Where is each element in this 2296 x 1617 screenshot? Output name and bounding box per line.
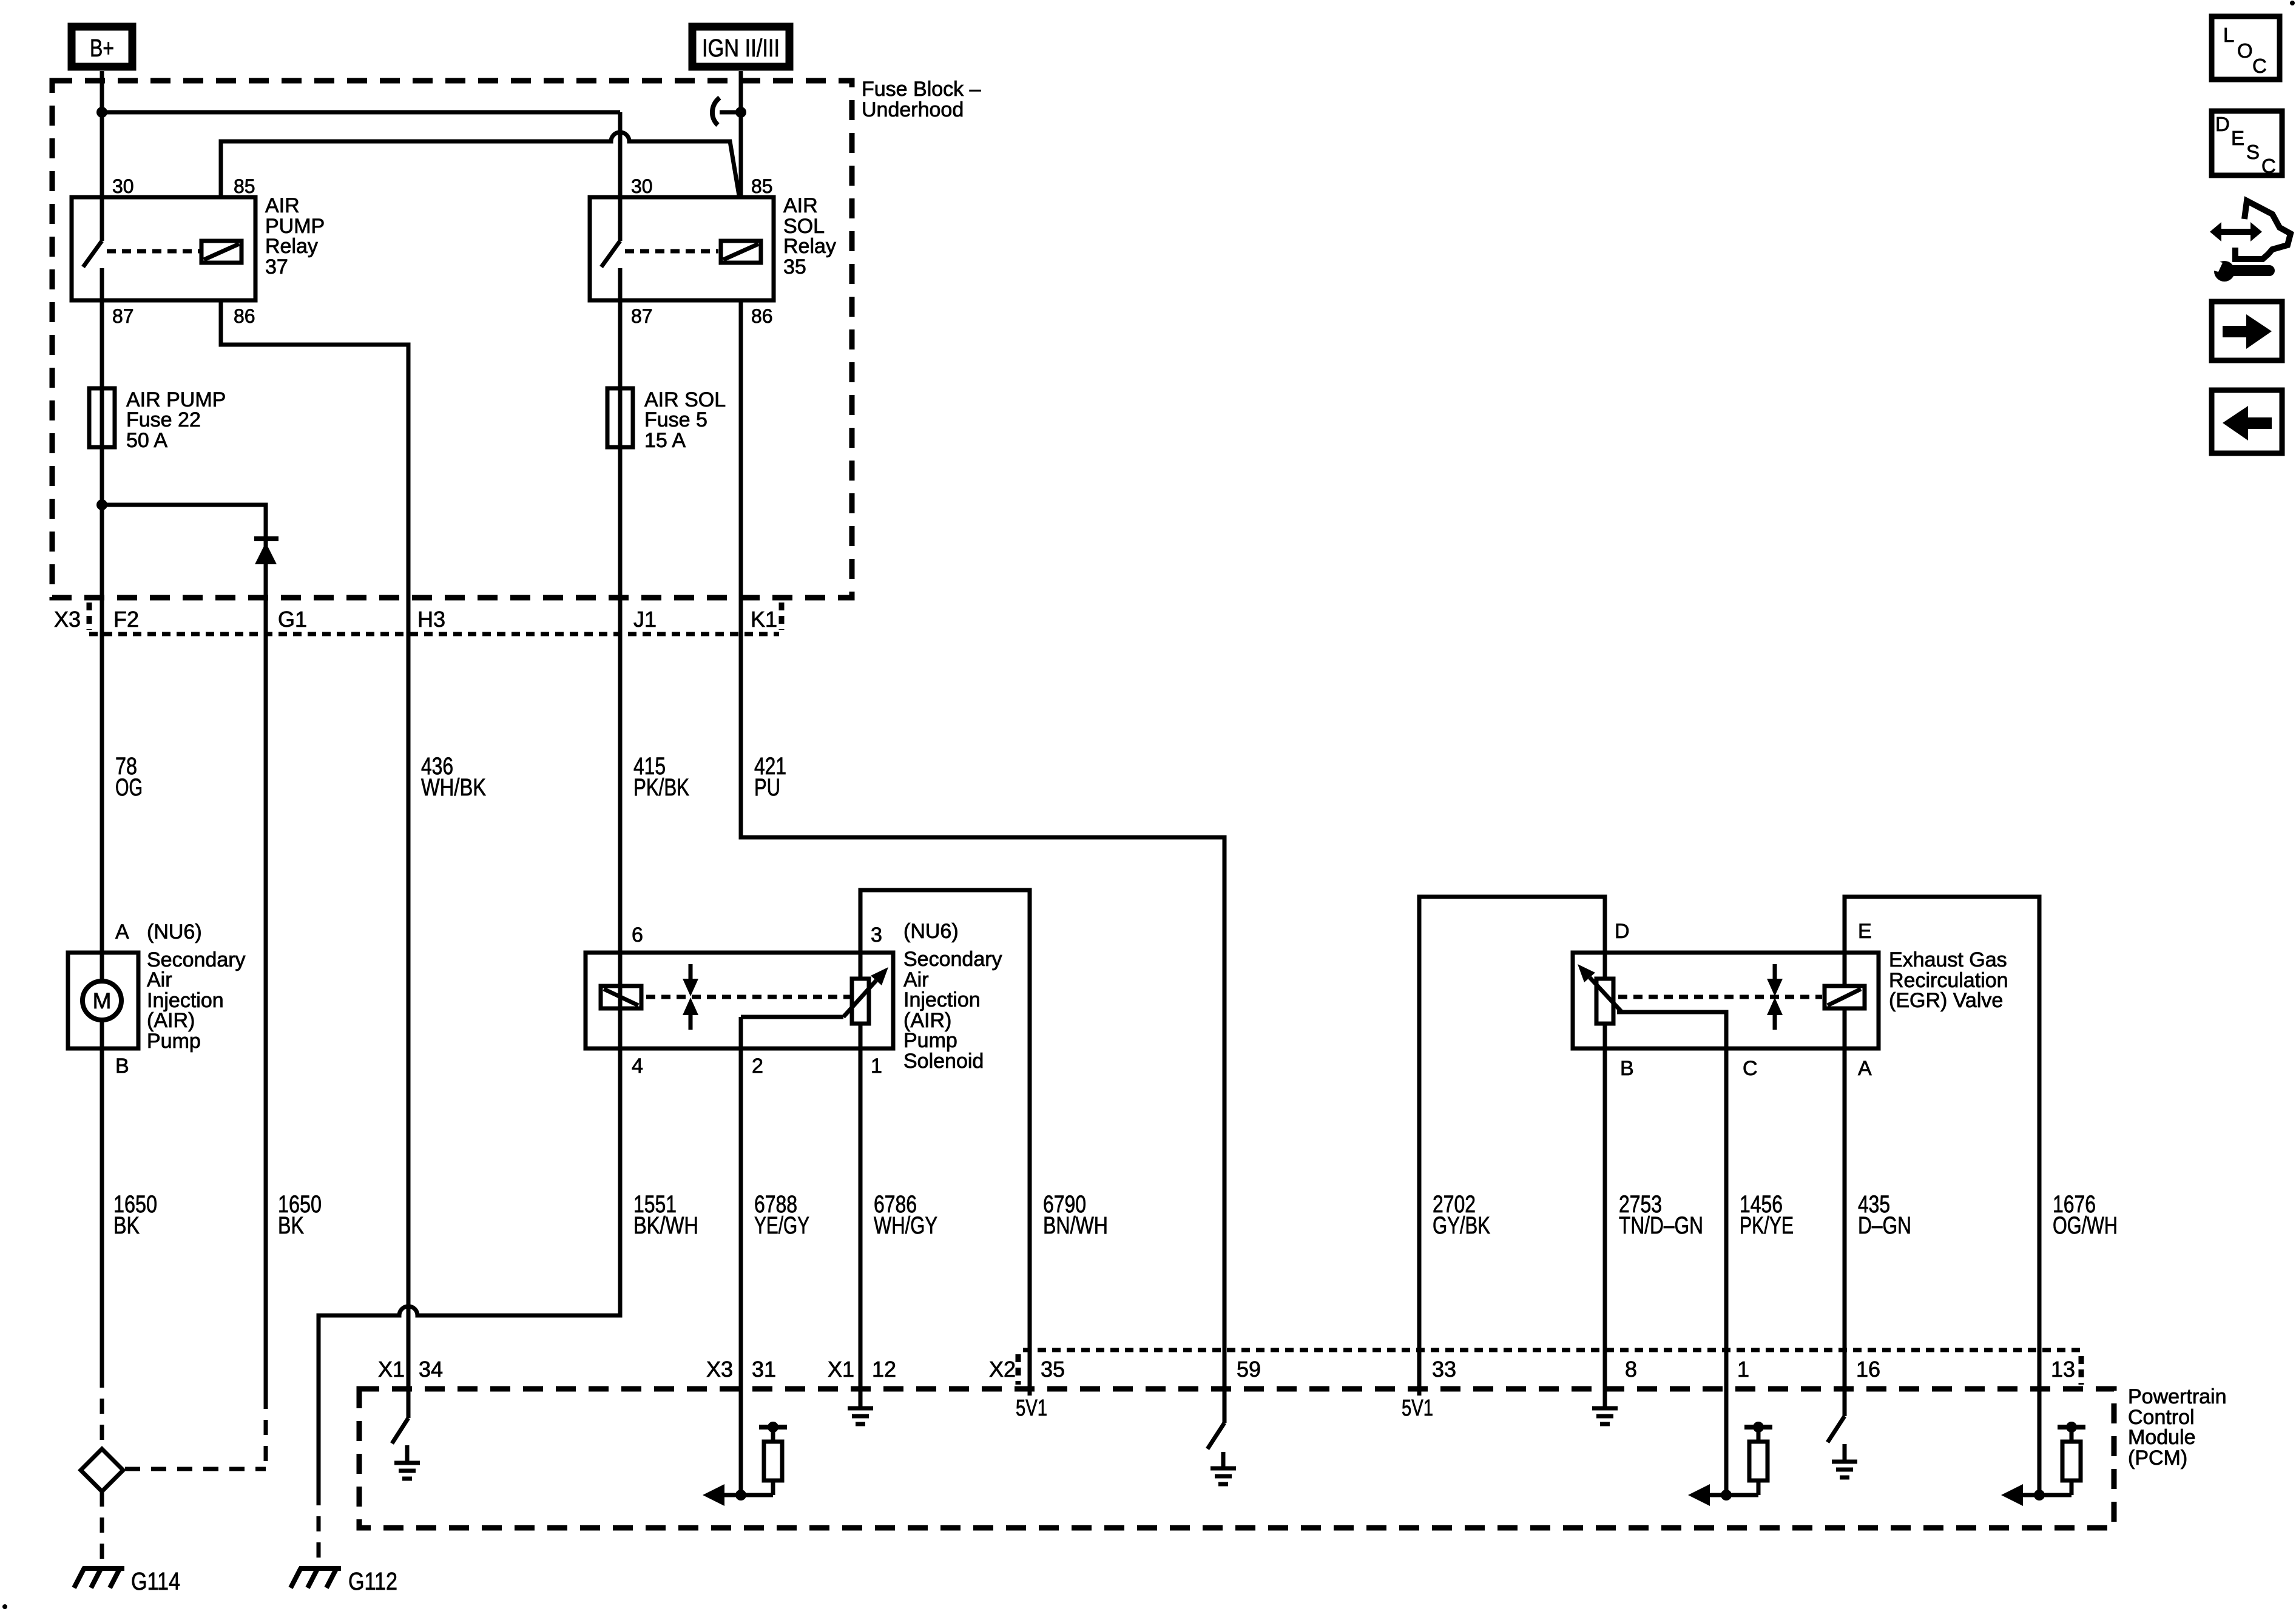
svg-text:A: A xyxy=(1858,1057,1872,1080)
svg-text:Solenoid: Solenoid xyxy=(903,1050,984,1073)
svg-text:Exhaust Gas: Exhaust Gas xyxy=(1889,948,2007,971)
svg-text:D–GN: D–GN xyxy=(1858,1212,1911,1239)
svg-text:Injection: Injection xyxy=(903,988,981,1011)
svg-text:13: 13 xyxy=(2051,1357,2075,1382)
svg-text:PU: PU xyxy=(754,774,780,801)
svg-text:(EGR) Valve: (EGR) Valve xyxy=(1889,989,2003,1012)
svg-text:(NU6): (NU6) xyxy=(147,920,202,944)
svg-text:X3: X3 xyxy=(54,607,81,632)
svg-text:B: B xyxy=(1620,1057,1634,1080)
svg-text:B+: B+ xyxy=(90,34,114,62)
svg-text:M: M xyxy=(93,988,112,1013)
svg-text:C: C xyxy=(1743,1057,1758,1080)
svg-text:PK/BK: PK/BK xyxy=(633,774,689,801)
svg-text:WH/BK: WH/BK xyxy=(421,774,486,801)
svg-text:3: 3 xyxy=(871,923,882,947)
svg-text:85: 85 xyxy=(234,175,255,197)
svg-text:86: 86 xyxy=(234,305,255,327)
svg-text:(PCM): (PCM) xyxy=(2128,1447,2187,1470)
svg-text:X1: X1 xyxy=(828,1357,854,1382)
svg-text:30: 30 xyxy=(112,175,134,197)
svg-text:8: 8 xyxy=(1625,1357,1637,1382)
svg-text:D: D xyxy=(2215,113,2230,135)
svg-text:Fuse 5: Fuse 5 xyxy=(644,408,707,431)
svg-text:Pump: Pump xyxy=(903,1029,957,1052)
svg-text:GY/BK: GY/BK xyxy=(1433,1212,1490,1239)
svg-text:6: 6 xyxy=(632,923,643,947)
svg-text:K1: K1 xyxy=(751,607,777,632)
svg-text:12: 12 xyxy=(872,1357,896,1382)
svg-text:85: 85 xyxy=(751,175,773,197)
svg-text:YE/GY: YE/GY xyxy=(754,1212,809,1239)
svg-text:Pump: Pump xyxy=(147,1030,201,1053)
svg-text:AIR: AIR xyxy=(265,194,300,217)
svg-text:Fuse 22: Fuse 22 xyxy=(126,408,201,431)
svg-text:4: 4 xyxy=(632,1055,643,1078)
svg-text:BK/WH: BK/WH xyxy=(633,1212,698,1239)
svg-text:Air: Air xyxy=(147,968,172,991)
svg-text:37: 37 xyxy=(265,255,288,279)
svg-text:2: 2 xyxy=(752,1055,763,1078)
svg-text:BK: BK xyxy=(113,1212,140,1239)
svg-text:X2: X2 xyxy=(989,1357,1016,1382)
svg-text:TN/D–GN: TN/D–GN xyxy=(1619,1212,1703,1239)
svg-text:OG: OG xyxy=(115,774,143,801)
svg-text:50 A: 50 A xyxy=(126,429,167,452)
svg-text:Secondary: Secondary xyxy=(903,948,1002,971)
svg-text:C: C xyxy=(2261,155,2276,177)
svg-text:WH/GY: WH/GY xyxy=(874,1212,937,1239)
svg-text:Module: Module xyxy=(2128,1426,2196,1449)
svg-text:E: E xyxy=(2231,127,2244,149)
svg-text:30: 30 xyxy=(631,175,653,197)
svg-text:1: 1 xyxy=(871,1055,882,1078)
svg-text:O: O xyxy=(2237,39,2253,62)
svg-text:35: 35 xyxy=(1041,1357,1065,1382)
svg-text:OG/WH: OG/WH xyxy=(2053,1212,2118,1239)
svg-text:31: 31 xyxy=(752,1357,776,1382)
svg-text:X1: X1 xyxy=(378,1357,405,1382)
svg-text:34: 34 xyxy=(419,1357,443,1382)
svg-text:D: D xyxy=(1615,920,1630,943)
svg-text:33: 33 xyxy=(1432,1357,1456,1382)
svg-text:A: A xyxy=(115,920,129,944)
svg-text:5V1: 5V1 xyxy=(1402,1396,1433,1421)
svg-text:AIR: AIR xyxy=(783,194,818,217)
svg-text:1: 1 xyxy=(1737,1357,1749,1382)
svg-text:S: S xyxy=(2246,141,2260,163)
svg-text:BK: BK xyxy=(278,1212,304,1239)
svg-text:5V1: 5V1 xyxy=(1016,1396,1047,1421)
svg-text:BN/WH: BN/WH xyxy=(1043,1212,1108,1239)
svg-text:Powertrain: Powertrain xyxy=(2128,1385,2227,1408)
svg-text:Relay: Relay xyxy=(265,235,318,258)
svg-text:L: L xyxy=(2223,24,2234,46)
svg-text:87: 87 xyxy=(631,305,653,327)
svg-text:35: 35 xyxy=(783,255,806,279)
svg-text:86: 86 xyxy=(751,305,773,327)
svg-text:Relay: Relay xyxy=(783,235,836,258)
svg-text:Fuse Block –: Fuse Block – xyxy=(862,78,981,101)
svg-text:(NU6): (NU6) xyxy=(903,920,959,943)
svg-text:G1: G1 xyxy=(278,607,307,632)
svg-text:X3: X3 xyxy=(706,1357,733,1382)
svg-text:G112: G112 xyxy=(348,1567,397,1595)
svg-text:E: E xyxy=(1858,920,1872,943)
svg-text:G114: G114 xyxy=(131,1567,180,1595)
svg-text:IGN II/III: IGN II/III xyxy=(702,34,780,62)
svg-text:C: C xyxy=(2252,55,2267,77)
svg-text:59: 59 xyxy=(1237,1357,1261,1382)
svg-text:Underhood: Underhood xyxy=(862,98,964,121)
svg-text:15 A: 15 A xyxy=(644,429,686,452)
svg-text:87: 87 xyxy=(112,305,134,327)
svg-text:B: B xyxy=(115,1055,129,1078)
svg-text:F2: F2 xyxy=(113,607,139,632)
svg-text:16: 16 xyxy=(1856,1357,1880,1382)
svg-text:(AIR): (AIR) xyxy=(147,1009,195,1032)
svg-text:H3: H3 xyxy=(417,607,445,632)
svg-text:J1: J1 xyxy=(633,607,657,632)
svg-text:PK/YE: PK/YE xyxy=(1740,1212,1794,1239)
